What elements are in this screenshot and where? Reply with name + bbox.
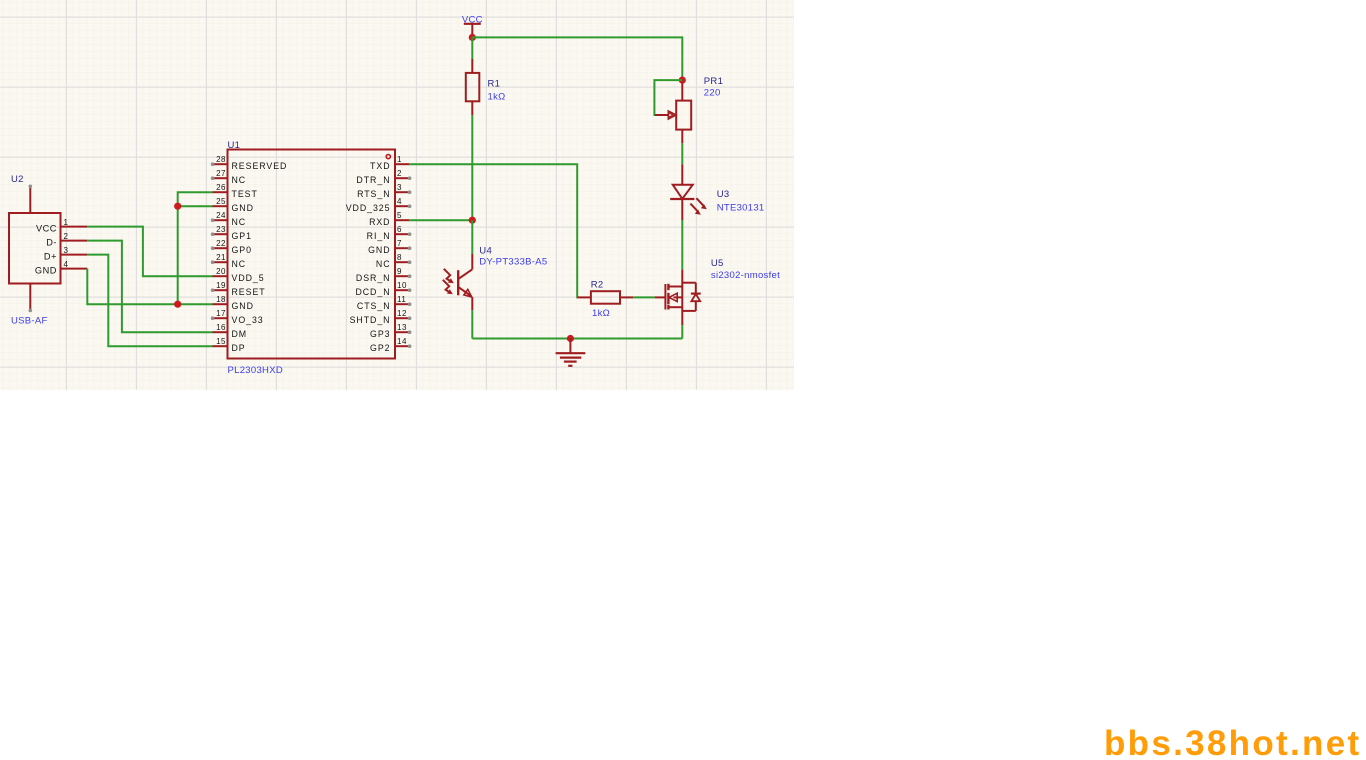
svg-text:NTE30131: NTE30131 xyxy=(717,203,765,214)
wire bottom ground rail xyxy=(472,338,682,340)
power symbol VCC xyxy=(462,14,483,37)
resistor R2 xyxy=(577,291,633,304)
U1 right pin 7 (GND) xyxy=(368,239,411,255)
svg-text:1: 1 xyxy=(397,155,402,164)
svg-text:4: 4 xyxy=(64,260,69,269)
U2 top pin stub xyxy=(29,185,33,214)
svg-text:11: 11 xyxy=(397,295,406,304)
U1 left pin 21 (NC) xyxy=(211,253,246,269)
U1 right pin 8 (NC) xyxy=(376,253,412,269)
svg-text:NC: NC xyxy=(232,259,247,269)
svg-text:RESERVED: RESERVED xyxy=(232,161,288,171)
svg-text:13: 13 xyxy=(397,323,407,332)
U5 value label si2302-nmosfet xyxy=(711,270,780,281)
svg-text:19: 19 xyxy=(216,281,226,290)
svg-text:VDD_5: VDD_5 xyxy=(232,273,265,283)
transistor U4 phototransistor DY-PT333B-A5 xyxy=(458,254,472,310)
U4 value label DY-PT333B-A5 xyxy=(479,256,547,267)
svg-text:R1: R1 xyxy=(488,78,501,89)
wire VCC node down to R1 xyxy=(471,37,473,59)
U3 emitted light arrow 1 xyxy=(696,198,706,209)
U4 designator label xyxy=(479,246,492,257)
svg-text:3: 3 xyxy=(64,246,69,255)
wire U4 emitter to bottom rail xyxy=(471,310,473,338)
svg-text:NC: NC xyxy=(376,259,391,269)
PR1 value label 220 xyxy=(704,87,721,98)
svg-text:8: 8 xyxy=(397,253,402,262)
U1 left pin 22 (GP0) xyxy=(211,239,252,255)
svg-text:24: 24 xyxy=(216,211,226,220)
svg-text:DCD_N: DCD_N xyxy=(355,287,390,297)
svg-text:DP: DP xyxy=(232,343,246,353)
op-amp U1 chip body PL2303HXD xyxy=(228,150,396,359)
svg-text:PL2303HXD: PL2303HXD xyxy=(228,365,284,376)
svg-text:15: 15 xyxy=(216,337,226,346)
U1 right pin 6 (RI_N) xyxy=(367,225,412,241)
svg-text:SHTD_N: SHTD_N xyxy=(350,315,391,325)
svg-text:9: 9 xyxy=(397,267,402,276)
U1 left pin 19 (RESET) xyxy=(211,281,266,297)
wire VCC node to PR1 column xyxy=(472,37,682,80)
svg-text:220: 220 xyxy=(704,87,721,98)
U5 designator label xyxy=(711,258,724,269)
svg-text:bbs.38hot.net: bbs.38hot.net xyxy=(1104,724,1361,760)
svg-text:5: 5 xyxy=(397,211,402,220)
U1 left pin 18 (GND) xyxy=(213,295,254,311)
wire D+(U2 pin3) to U1 DP pin15 xyxy=(87,255,212,347)
svg-text:CTS_N: CTS_N xyxy=(357,301,391,311)
svg-text:GND: GND xyxy=(232,203,254,213)
svg-text:1: 1 xyxy=(64,218,69,227)
R1 value label 1k ohm xyxy=(488,92,506,103)
U2 value label USB-AF xyxy=(11,316,48,327)
svg-text:U3: U3 xyxy=(717,189,730,200)
U1 right pin 3 (RTS_N) xyxy=(357,183,411,199)
svg-text:28: 28 xyxy=(216,155,226,164)
svg-text:U5: U5 xyxy=(711,258,724,269)
U1 left pin 23 (GP1) xyxy=(211,225,252,241)
U1 designator label xyxy=(228,140,241,151)
junction at TEST bus / pin25 xyxy=(174,203,181,210)
junction at RXD node xyxy=(469,217,476,224)
junction at VCC node xyxy=(469,34,476,41)
U1 right pin 10 (DCD_N) xyxy=(355,281,411,297)
U1 right pin 13 (GP3) xyxy=(370,323,411,339)
svg-text:22: 22 xyxy=(216,239,226,248)
svg-text:26: 26 xyxy=(216,183,226,192)
wire TXD pin1 to R2 xyxy=(409,164,578,297)
U1 left pin 28 (RESERVED) xyxy=(211,155,288,171)
U2 pin 1 (VCC) xyxy=(36,218,87,234)
U1 left pin 26 (TEST) xyxy=(213,183,258,199)
U4 incident light arrow 1 xyxy=(444,269,454,284)
svg-text:DTR_N: DTR_N xyxy=(356,175,390,185)
svg-text:2: 2 xyxy=(64,232,69,241)
svg-text:USB-AF: USB-AF xyxy=(11,316,48,327)
U1 left pin 27 (NC) xyxy=(211,169,246,185)
U1 right pin 12 (SHTD_N) xyxy=(350,309,412,325)
svg-text:4: 4 xyxy=(397,197,402,206)
R2 designator label xyxy=(591,279,604,290)
U1 right pin 2 (DTR_N) xyxy=(356,169,411,185)
svg-text:U4: U4 xyxy=(479,246,492,257)
U1 left pin 24 (NC) xyxy=(211,211,246,227)
svg-text:RXD: RXD xyxy=(369,217,390,227)
U1 right pin 4 (VDD_325) xyxy=(346,197,412,213)
wire GND(U2 pin4) to U1 GND pin18 xyxy=(87,269,212,305)
U3 value label NTE30131 xyxy=(717,203,765,214)
U2 designator label xyxy=(11,174,24,185)
U2 pin 2 (D-) xyxy=(46,232,87,248)
wire VCC(U2 pin1) to U1 VDD_5 pin20 xyxy=(87,227,212,277)
U1 right pin 14 (GP2) xyxy=(370,337,411,353)
svg-text:GND: GND xyxy=(368,245,390,255)
U1 left pin 15 (DP) xyxy=(213,337,246,353)
U1 right pin 11 (CTS_N) xyxy=(357,295,411,311)
wire PR1 bottom to U3 anode xyxy=(681,143,683,164)
wire D-(U2 pin2) to U1 DM pin16 xyxy=(87,241,212,333)
resistor R1 xyxy=(466,59,480,115)
svg-text:GP1: GP1 xyxy=(232,231,252,241)
R1 designator label xyxy=(488,78,501,89)
U2 bottom pin stub xyxy=(29,284,33,313)
connector U2 body USB-AF xyxy=(9,213,61,284)
U1 pin-1 dot indicator xyxy=(386,155,390,159)
svg-text:DSR_N: DSR_N xyxy=(356,273,391,283)
LED U3 NTE30131 xyxy=(670,164,694,220)
svg-text:14: 14 xyxy=(397,337,407,346)
U1 left pin 20 (VDD_5) xyxy=(213,267,265,283)
svg-text:U2: U2 xyxy=(11,174,24,185)
svg-text:12: 12 xyxy=(397,309,407,318)
svg-text:VO_33: VO_33 xyxy=(232,315,264,325)
svg-text:1kΩ: 1kΩ xyxy=(488,92,506,103)
svg-text:si2302-nmosfet: si2302-nmosfet xyxy=(711,270,780,281)
svg-text:7: 7 xyxy=(397,239,402,248)
wire U5 source to bottom rail xyxy=(681,325,683,338)
U1 left pin 16 (DM) xyxy=(213,323,248,339)
ground symbol xyxy=(556,339,586,366)
junction at PR1 top node xyxy=(679,77,686,84)
svg-text:VCC: VCC xyxy=(36,224,57,234)
svg-text:TXD: TXD xyxy=(370,161,390,171)
U1 right pin 1 (TXD) xyxy=(370,155,409,171)
svg-text:U1: U1 xyxy=(228,140,241,151)
wire U3 cathode to U5 drain xyxy=(681,220,683,270)
U2 pin 3 (D+) xyxy=(44,246,87,262)
U4 incident light arrow 2 xyxy=(443,280,453,295)
svg-text:GND: GND xyxy=(232,301,254,311)
svg-text:R2: R2 xyxy=(591,279,604,290)
svg-text:DY-PT333B-A5: DY-PT333B-A5 xyxy=(479,256,547,267)
svg-text:D-: D- xyxy=(46,238,57,248)
U1 value label PL2303HXD xyxy=(228,365,284,376)
svg-text:NC: NC xyxy=(232,217,247,227)
U1 left pin 17 (VO_33) xyxy=(211,309,264,325)
svg-text:27: 27 xyxy=(216,169,226,178)
R2 value label 1k ohm xyxy=(592,308,610,319)
svg-text:GP0: GP0 xyxy=(232,245,252,255)
svg-text:10: 10 xyxy=(397,281,407,290)
junction at ground tap xyxy=(567,335,574,342)
U2 pin 4 (GND) xyxy=(35,260,87,276)
svg-text:VDD_325: VDD_325 xyxy=(346,203,391,213)
svg-text:20: 20 xyxy=(216,267,226,276)
svg-text:RTS_N: RTS_N xyxy=(357,189,390,199)
svg-text:16: 16 xyxy=(216,323,226,332)
svg-text:DM: DM xyxy=(232,329,248,339)
wire R1 to RXD node xyxy=(471,115,473,220)
U3 designator label xyxy=(717,189,730,200)
U3 emitted light arrow 2 xyxy=(690,204,700,215)
wire R2 to U5 gate xyxy=(633,296,655,298)
svg-text:D+: D+ xyxy=(44,252,57,262)
svg-text:1kΩ: 1kΩ xyxy=(592,308,610,319)
svg-text:GP3: GP3 xyxy=(370,329,390,339)
watermark bbs.38hot.net xyxy=(1104,724,1361,760)
PR1 designator label xyxy=(704,76,723,87)
svg-text:RESET: RESET xyxy=(232,287,266,297)
svg-text:2: 2 xyxy=(397,169,402,178)
wire PR1 wiper loop xyxy=(654,80,682,115)
wire to U1 GND pin25 xyxy=(178,205,213,207)
svg-text:18: 18 xyxy=(216,295,226,304)
svg-text:RI_N: RI_N xyxy=(367,231,391,241)
junction at GND wire / TEST bus xyxy=(174,301,181,308)
svg-text:23: 23 xyxy=(216,225,226,234)
svg-text:6: 6 xyxy=(397,225,402,234)
wire RXD pin5 to node xyxy=(409,219,472,221)
svg-text:17: 17 xyxy=(216,309,226,318)
svg-text:3: 3 xyxy=(397,183,402,192)
svg-text:25: 25 xyxy=(216,197,226,206)
potentiometer PR1 xyxy=(655,83,691,144)
U1 right pin 9 (DSR_N) xyxy=(356,267,411,283)
svg-text:GND: GND xyxy=(35,266,57,276)
svg-text:PR1: PR1 xyxy=(704,76,723,87)
U1 left pin 25 (GND) xyxy=(213,197,254,213)
U1 right pin 5 (RXD) xyxy=(369,211,409,227)
svg-text:TEST: TEST xyxy=(232,189,258,199)
svg-text:21: 21 xyxy=(216,253,226,262)
svg-text:NC: NC xyxy=(232,175,247,185)
wire TEST/GND bus vertical xyxy=(178,192,213,304)
transistor U5 n-mosfet si2302 xyxy=(655,270,701,326)
wire RXD node down to U4 collector xyxy=(471,220,473,254)
svg-text:GP2: GP2 xyxy=(370,343,390,353)
